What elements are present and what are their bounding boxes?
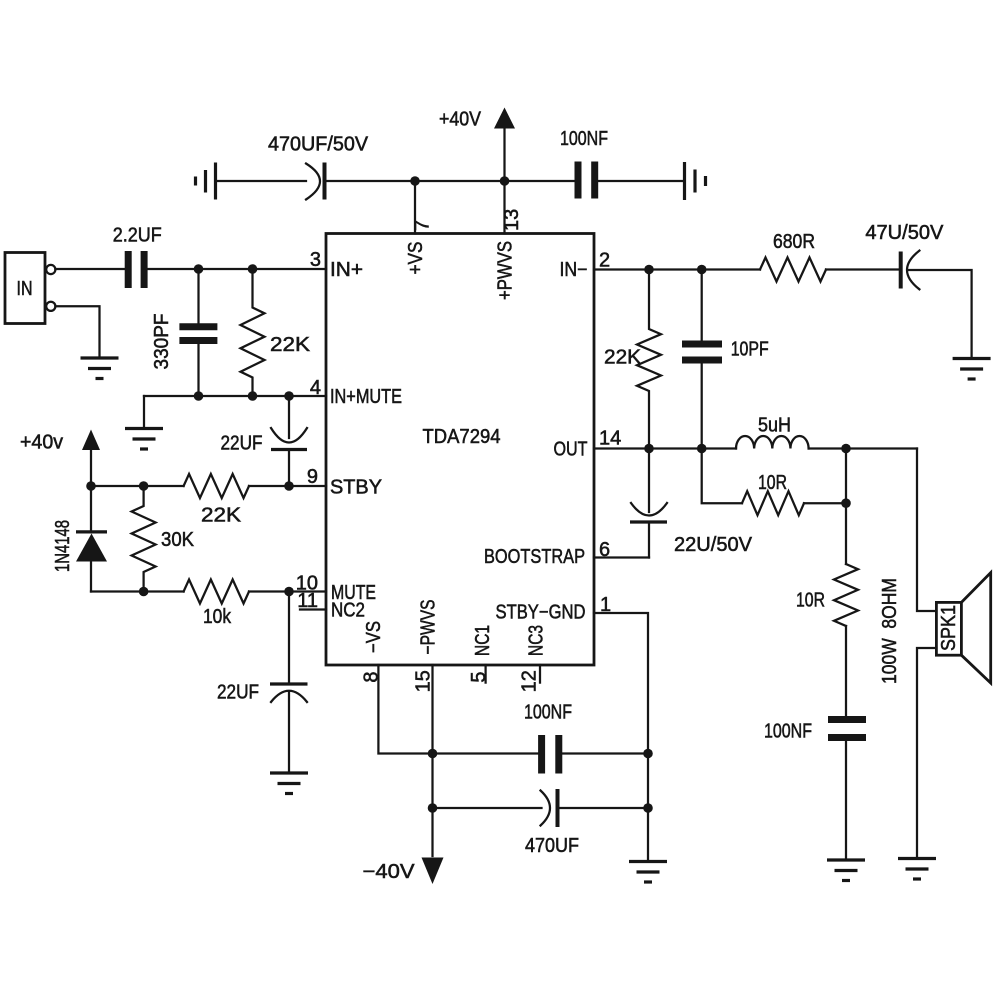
node +PWVS rail: [500, 176, 510, 186]
svg-text:+40V: +40V: [439, 109, 482, 131]
power +40v (standby supply): [20, 430, 100, 487]
capacitor 47U/50V: [865, 222, 944, 289]
node bridge right: [841, 498, 851, 508]
svg-text:10R: 10R: [758, 472, 787, 494]
resistor 22K (standby divider): [184, 474, 249, 527]
svg-text:15: 15: [413, 670, 435, 692]
pin 12 NC3 label: [519, 625, 548, 692]
capacitor 10PF: [682, 270, 769, 449]
wire pin 1 to ground rail: [594, 613, 648, 860]
svg-text:10R: 10R: [796, 590, 825, 612]
svg-text:SPK1: SPK1: [938, 605, 960, 651]
svg-text:9: 9: [307, 466, 318, 488]
ground (mute cap): [270, 773, 308, 794]
wire OUT row: [594, 447, 736, 449]
capacitor 22UF (in+mute to stby): [221, 396, 308, 486]
pin 6 BOOTSTRAP: [484, 539, 610, 568]
svg-text:2: 2: [599, 250, 610, 272]
svg-text:7: 7: [412, 220, 434, 231]
svg-text:11: 11: [297, 590, 318, 612]
svg-text:1N4148: 1N4148: [52, 520, 74, 572]
wire STBY row right: [249, 485, 326, 487]
svg-text:STBY: STBY: [330, 477, 382, 499]
node 330PF bottom: [194, 391, 204, 401]
pin 1 STBY-GND: [496, 594, 612, 624]
ground (signal gnd): [629, 862, 667, 883]
svg-text:10k: 10k: [203, 606, 232, 628]
pin 13 +PWVS stub: [503, 181, 505, 234]
pin 2 IN-: [560, 250, 611, 282]
capacitor 22U/50V (bootstrap): [630, 449, 753, 558]
wire top rail right: [598, 180, 683, 182]
inductor 5uH: [736, 415, 809, 449]
wire speaker lower terminal: [917, 648, 936, 857]
svg-text:22U/50V: 22U/50V: [674, 534, 753, 556]
node 30K top: [139, 481, 149, 491]
wire OUT to speaker: [917, 449, 936, 612]
svg-text:IN+: IN+: [330, 259, 363, 281]
wire zobel bridge leads: [702, 449, 742, 504]
svg-text:100NF: 100NF: [764, 721, 812, 743]
wire 330PF top lead: [197, 269, 199, 323]
ground (mute rail): [125, 429, 163, 450]
svg-text:470UF: 470UF: [525, 835, 579, 857]
resistor 10R (bridge): [742, 472, 804, 515]
node +VS rail: [410, 176, 420, 186]
resistor 22K (input bias): [241, 269, 311, 396]
capacitor 470UF (supply): [433, 789, 649, 857]
svg-text:TDA7294: TDA7294: [423, 426, 501, 448]
capacitor 470UF/50V: [268, 134, 369, 200]
wire top rail left: [217, 180, 306, 182]
node 22K fb top: [644, 265, 654, 275]
svg-text:2.2UF: 2.2UF: [113, 225, 162, 247]
svg-text:IN: IN: [17, 278, 33, 300]
wire pin 8 -VS: [378, 665, 432, 754]
node 22K top: [248, 264, 258, 274]
svg-text:100NF: 100NF: [560, 128, 608, 150]
wire MUTE row left: [91, 590, 184, 592]
pin 11 NC2 stub: [297, 590, 365, 622]
node bootstrap top: [644, 444, 654, 454]
wire pin 15 -PWVS: [431, 665, 433, 856]
svg-text:22UF: 22UF: [221, 433, 263, 455]
svg-text:−PWVS: −PWVS: [418, 600, 440, 655]
svg-text:22UF: 22UF: [217, 682, 259, 704]
node 470UF supply right: [643, 803, 653, 813]
svg-text:NC1: NC1: [472, 625, 494, 656]
svg-text:−VS: −VS: [363, 621, 385, 653]
svg-text:22K: 22K: [604, 347, 642, 369]
svg-text:−40V: −40V: [363, 861, 416, 883]
wire IN to 2.2UF: [55, 268, 124, 270]
node 22K bottom: [248, 391, 258, 401]
pin 4 IN+MUTE: [310, 377, 402, 408]
pin 5 NC1 label: [468, 625, 494, 683]
svg-text:30K: 30K: [161, 529, 195, 551]
resistor 680R: [760, 231, 826, 282]
pin 3 IN+: [310, 249, 363, 281]
node 22UF bottom / STBY: [284, 481, 294, 491]
wire pin 6 row: [594, 556, 649, 558]
ground (speaker): [898, 859, 936, 880]
svg-text:IN−: IN−: [560, 259, 588, 281]
node 30K bottom: [139, 587, 149, 597]
svg-text:4: 4: [310, 377, 321, 399]
svg-text:OUT: OUT: [554, 439, 588, 461]
svg-text:IN+MUTE: IN+MUTE: [330, 386, 402, 408]
wire IN- row: [594, 268, 760, 270]
wire IN lower terminal to ground: [55, 306, 99, 356]
connector IN: [5, 253, 55, 324]
wire bridge to node: [804, 502, 846, 504]
node 5uH / 10R junction: [841, 444, 851, 454]
svg-text:10PF: 10PF: [731, 339, 769, 361]
wire MUTE row right: [249, 590, 326, 592]
pin 14 OUT: [554, 428, 622, 461]
wire top rail to 100NF: [505, 180, 575, 182]
ground (zobel): [827, 860, 865, 881]
capacitor 330PF: [151, 314, 217, 370]
wire OUT row right: [809, 447, 917, 449]
node 10PF bottom / zobel: [697, 444, 707, 454]
resistor 22K (feedback): [604, 270, 661, 449]
resistor 10k (mute): [184, 580, 249, 629]
pin 15 -PWVS label: [413, 600, 440, 693]
svg-text:470UF/50V: 470UF/50V: [268, 134, 369, 156]
speaker SPK1: [936, 573, 990, 683]
svg-text:13: 13: [501, 209, 523, 231]
svg-text:47U/50V: 47U/50V: [865, 222, 944, 244]
wire 47U to ground: [908, 270, 972, 357]
wire top rail to +VS: [327, 180, 416, 182]
ground (rotated, top-left supply return): [196, 163, 216, 200]
capacitor 2.2UF: [113, 225, 162, 289]
svg-text:+40v: +40v: [20, 432, 63, 454]
node 22UF top: [284, 391, 294, 401]
node 330PF top: [194, 264, 204, 274]
resistor 30K: [132, 486, 195, 592]
ground (47U output return): [953, 359, 991, 380]
wire IN+ row: [148, 268, 326, 270]
wire top rail +VS to +PWVS: [415, 180, 505, 182]
svg-text:14: 14: [599, 428, 621, 450]
capacitor 100NF (zobel): [764, 720, 866, 859]
node 100NF supply right: [643, 749, 653, 759]
node -VS junction: [428, 749, 438, 759]
node 10PF top: [697, 265, 707, 275]
pin 8 -VS label: [361, 621, 386, 683]
svg-text:5: 5: [468, 671, 490, 682]
svg-text:3: 3: [310, 249, 321, 271]
svg-text:+PWVS: +PWVS: [495, 241, 517, 300]
svg-text:NC3: NC3: [526, 625, 548, 656]
resistor 10R (zobel series): [796, 449, 858, 717]
pin 10 MUTE: [296, 573, 376, 605]
pin 9 STBY: [307, 466, 382, 499]
svg-text:+VS: +VS: [405, 242, 427, 275]
node 22UF mute top: [284, 587, 294, 597]
svg-text:NC2: NC2: [331, 600, 365, 622]
node +40v / STBY row: [86, 481, 96, 491]
op-amp U1 TDA7294: [326, 234, 594, 666]
wire 330PF bottom lead: [197, 344, 199, 396]
power -40V: [363, 858, 444, 885]
svg-text:330PF: 330PF: [151, 314, 173, 370]
ground (input): [81, 358, 119, 379]
pin 7 +VS label: [405, 220, 434, 275]
diode 1N4148: [52, 486, 107, 592]
wire STBY row left: [91, 485, 184, 487]
capacitor 100NF (top decoupling): [560, 128, 608, 199]
svg-text:680R: 680R: [773, 231, 815, 253]
svg-text:5uH: 5uH: [758, 415, 791, 437]
node 470UF left: [428, 803, 438, 813]
capacitor 22UF (mute filter): [217, 592, 308, 773]
svg-text:22K: 22K: [201, 505, 242, 527]
wire IN+MUTE row: [144, 395, 326, 397]
svg-text:22K: 22K: [270, 334, 311, 356]
wire IN+MUTE row to ground: [143, 396, 145, 427]
svg-text:100W 8OHM: 100W 8OHM: [879, 578, 901, 684]
ground (rotated, top-right supply return): [685, 162, 706, 200]
capacitor 100NF (supply): [433, 702, 649, 774]
svg-text:100NF: 100NF: [524, 702, 572, 724]
pin 13 +PWVS label: [495, 209, 524, 300]
power +40V: [439, 108, 515, 182]
svg-text:STBY−GND: STBY−GND: [496, 602, 586, 624]
wire 680R to 47U: [826, 268, 899, 270]
pin 7 +VS stub: [414, 181, 416, 234]
svg-text:12: 12: [519, 670, 541, 692]
svg-text:BOOTSTRAP: BOOTSTRAP: [484, 546, 585, 568]
